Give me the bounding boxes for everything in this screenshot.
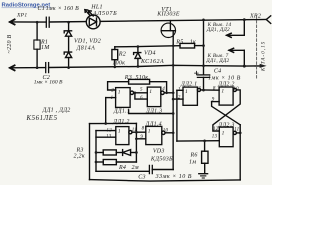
svg-text:11: 11: [234, 127, 239, 132]
gate DD2.2: [219, 87, 233, 105]
capacitor C4: [197, 74, 209, 76]
svg-text:VD1, VD2: VD1, VD2: [74, 39, 101, 45]
svg-text:C1: C1: [38, 6, 46, 12]
wire bottom loop: [89, 124, 91, 180]
gate DD1.1: [116, 88, 131, 108]
svg-text:R6: R6: [190, 152, 198, 158]
svg-text:АЛ507Б: АЛ507Б: [92, 11, 117, 17]
svg-text:ХР2: ХР2: [249, 13, 261, 19]
svg-text:ДД1, ДД2: ДД1, ДД2: [206, 27, 230, 33]
svg-text:ДД1.1: ДД1.1: [113, 109, 130, 115]
node R3 right on DD1.3 output wire: [165, 91, 168, 94]
svg-text:VD4: VD4: [144, 50, 156, 57]
wire top rail: [6, 21, 69, 23]
resistor R2: [112, 50, 118, 60]
node C4 tap on common rail: [202, 64, 205, 67]
node DD2.3 output on right vertical: [239, 132, 242, 135]
connector XP1 pin 1 arrowhead: [10, 19, 15, 24]
node R2 bottom on common rail: [113, 66, 116, 69]
svg-text:10: 10: [163, 129, 169, 134]
svg-text:ДД2.3: ДД2.3: [217, 123, 234, 129]
resistor R6: [204, 141, 206, 151]
svg-text:1к: 1к: [190, 39, 196, 45]
resistor R3 510k: [129, 79, 150, 84]
svg-text:100к: 100к: [112, 61, 125, 67]
node VD4 bottom on common rail: [137, 65, 140, 68]
svg-text:1: 1: [148, 128, 151, 134]
resistor R3 2,2k row: [96, 152, 103, 154]
svg-text:510к: 510к: [136, 75, 149, 81]
svg-text:ДД1 , ДД2: ДД1 , ДД2: [42, 108, 71, 114]
node R6 top on reset rail: [203, 140, 206, 143]
svg-text:2м: 2м: [132, 165, 139, 171]
svg-text:R2: R2: [118, 51, 126, 57]
svg-text:КД503Б: КД503Б: [150, 156, 173, 162]
connector XP2 boundary dashed: [256, 16, 258, 78]
svg-text:1: 1: [111, 96, 114, 101]
svg-text:2: 2: [111, 89, 114, 94]
gate DD1.3: [147, 87, 161, 107]
wire mains bottom / common rail: [10, 67, 46, 69]
svg-text:6: 6: [140, 96, 143, 101]
svg-text:1М: 1М: [41, 45, 50, 51]
svg-text:4: 4: [162, 87, 165, 92]
connector XP1 pin 2 arrowhead: [10, 65, 15, 70]
svg-text:1: 1: [221, 89, 224, 95]
svg-text:1: 1: [118, 128, 121, 134]
wire branch to pin 7: [243, 50, 245, 66]
svg-text:1: 1: [185, 89, 188, 95]
node DD1.1 pin1 riser on W1: [104, 122, 107, 125]
svg-text:1: 1: [149, 89, 152, 95]
node DD1.2 output on out vertical: [135, 131, 138, 134]
svg-text:8: 8: [142, 126, 145, 131]
svg-text:1: 1: [118, 89, 121, 95]
zener diode VD1: [66, 31, 72, 36]
svg-text:1м: 1м: [189, 160, 196, 166]
wire DD1.2 out vertical: [135, 123, 137, 162]
svg-text:5: 5: [140, 88, 143, 93]
svg-text:ДД2.2: ДД2.2: [217, 82, 234, 88]
svg-text:13: 13: [106, 134, 112, 139]
node under-DD1.3 wire on source vertical: [172, 112, 175, 115]
svg-text:ДД1.2: ДД1.2: [112, 119, 129, 125]
node supply tap on top rail: [202, 19, 205, 22]
svg-text:9: 9: [212, 97, 215, 102]
svg-text:1: 1: [178, 88, 181, 93]
svg-text:1мк × 160 В: 1мк × 160 В: [34, 80, 63, 86]
node C4 bottom on DD2.1 output wire: [202, 89, 205, 92]
node XP2 pin7 branch on common rail: [243, 65, 246, 68]
svg-text:9: 9: [140, 135, 143, 140]
node VT1 source on gate wire: [172, 44, 175, 47]
svg-text:8: 8: [213, 87, 216, 92]
node DD2.1 pin2 on source vertical: [172, 98, 175, 101]
svg-text:3: 3: [198, 87, 201, 92]
svg-text:VD3: VD3: [153, 149, 165, 155]
node R1 top on mains rail: [36, 21, 39, 24]
svg-text:12: 12: [213, 127, 219, 132]
svg-text:ДД2.1: ДД2.1: [180, 82, 197, 88]
node DD1.4 pin9 on out vertical: [135, 137, 138, 140]
node R4 row on left vertical: [95, 161, 98, 164]
wire under DD1.3: [129, 110, 174, 114]
svg-text:R3: R3: [76, 148, 84, 154]
svg-text:10: 10: [233, 87, 239, 92]
gate DD1.4: [146, 126, 162, 144]
svg-text:12: 12: [106, 128, 112, 133]
svg-text:33мк × 10 В: 33мк × 10 В: [155, 174, 192, 180]
svg-text:1мк × 160 В: 1мк × 160 В: [46, 6, 79, 12]
gate DD2.1: [183, 87, 197, 105]
wire W1 feedback: [90, 122, 137, 124]
node DD1.3 output on source vertical: [172, 91, 175, 94]
connector XP2 pin 1 chevron: [266, 16, 270, 24]
svg-text:К561ЛЕ5: К561ЛЕ5: [26, 115, 58, 122]
resistor R5: [180, 43, 195, 48]
node VD2 bottom on common rail: [67, 66, 70, 69]
diode VD3: [122, 150, 124, 156]
wire gate/source node: [115, 46, 180, 47]
transistor VT1: [161, 23, 175, 37]
svg-text:ХР1: ХР1: [16, 12, 27, 18]
gate DD1.2: [116, 127, 129, 145]
node VD1 top on mains rail: [67, 21, 70, 24]
svg-text:КС162А: КС162А: [140, 59, 164, 65]
node source vertical on common rail: [172, 64, 175, 67]
wire VD column: [68, 22, 70, 67]
svg-text:11: 11: [132, 128, 137, 133]
svg-text:HL1: HL1: [90, 5, 102, 11]
zener diode VD2: [66, 52, 72, 57]
svg-text:~220 В: ~220 В: [7, 35, 13, 54]
capacitor C2: [45, 63, 47, 73]
capacitor C1: [45, 17, 47, 27]
svg-text:13: 13: [212, 135, 218, 140]
resistor R1: [34, 40, 40, 49]
wire +supply vertical: [203, 20, 205, 75]
node VD3 row on out vertical: [135, 151, 138, 154]
svg-text:ДД1, ДД2: ДД1, ДД2: [205, 58, 229, 64]
svg-text:К ТА-0,15: К ТА-0,15: [262, 41, 267, 72]
svg-text:ДД1.4: ДД1.4: [145, 120, 162, 127]
wire branch to pin 14: [243, 20, 245, 36]
node VD4 top on gate wire: [137, 45, 140, 48]
node XP2 pin14 branch on top rail: [243, 18, 246, 21]
svg-text:R5: R5: [175, 39, 183, 45]
ground: [199, 173, 208, 175]
gate DD2.3: [219, 127, 233, 147]
svg-text:2,2к: 2,2к: [74, 154, 85, 160]
svg-text:Д814А: Д814А: [76, 45, 96, 52]
zener diode VD4: [135, 53, 141, 59]
node R1 bottom on common rail: [36, 66, 39, 69]
svg-text:2: 2: [178, 96, 181, 101]
svg-text:С4: С4: [214, 68, 222, 75]
svg-text:1: 1: [222, 131, 225, 137]
wire R6/reset rail: [177, 140, 219, 142]
svg-text:КП303Е: КП303Е: [156, 12, 180, 18]
node DD1.1 output: [134, 91, 137, 94]
node DD1.4 output on source vertical: [172, 131, 175, 134]
svg-text:С3: С3: [138, 174, 146, 180]
LED HL1: [86, 15, 100, 29]
svg-text:ДД1.3: ДД1.3: [145, 109, 162, 115]
wire big vertical node: [172, 46, 174, 170]
svg-text:R3: R3: [124, 75, 132, 81]
node R3 row on left vertical: [95, 151, 98, 154]
connector XP2 pin 2 arrow: [260, 64, 267, 68]
node R5 right on supply vertical: [202, 44, 205, 47]
capacitor C3: [96, 170, 149, 172]
wire right vertical: [239, 125, 241, 180]
resistor R4 row: [96, 161, 103, 163]
svg-text:R4: R4: [118, 164, 126, 171]
